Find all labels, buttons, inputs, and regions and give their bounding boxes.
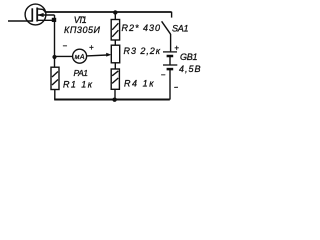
svg-text:R4 1к: R4 1к (124, 79, 154, 89)
wire top rail (45, 11, 172, 13)
svg-text:КП305И: КП305И (64, 25, 101, 35)
wire bottom rail (54, 99, 170, 101)
transistor VT1 KP305I (25, 4, 54, 25)
svg-text:PA1: PA1 (74, 68, 89, 78)
switch SA1 (162, 12, 172, 52)
svg-text:R1 1к: R1 1к (63, 80, 93, 90)
resistor R1 1k (51, 67, 59, 89)
wire node to ammeter (55, 55, 73, 57)
resistor R3 2.2k (111, 45, 119, 63)
svg-text:GB1: GB1 (180, 52, 198, 62)
ammeter PA1 (73, 49, 87, 63)
wire ammeter to R3 wiper (87, 54, 108, 57)
svg-text:SA1: SA1 (172, 23, 189, 33)
svg-text:мА: мА (75, 54, 85, 61)
svg-text:−: − (161, 71, 166, 80)
R3 wiper arrow (106, 53, 111, 57)
wire gate lead (8, 20, 33, 22)
resistor R4 1k (111, 69, 119, 89)
tick mark (174, 86, 178, 88)
svg-text:+: + (89, 43, 94, 52)
battery GB1 (163, 52, 177, 100)
junction meter node (52, 55, 56, 59)
wire R3 to R4 (114, 63, 116, 69)
junction bottom rail (112, 98, 116, 102)
svg-text:R2* 430: R2* 430 (122, 23, 161, 33)
wire R1 to bottom rail (54, 90, 56, 100)
resistor R2* 430 (111, 20, 119, 41)
wire source down to meter node (54, 15, 56, 67)
svg-text:4,5В: 4,5В (179, 64, 201, 74)
svg-text:+: + (174, 43, 179, 52)
wire R4 to bottom rail (114, 89, 116, 100)
junction source-substrate (52, 18, 56, 22)
svg-text:−: − (63, 42, 68, 51)
svg-text:R3 2,2к: R3 2,2к (124, 46, 161, 56)
wire R2 to R3 (114, 40, 116, 45)
svg-text:VT1: VT1 (74, 15, 87, 25)
junction top rail R2 (113, 10, 117, 14)
wire rail to R2 (114, 13, 116, 20)
